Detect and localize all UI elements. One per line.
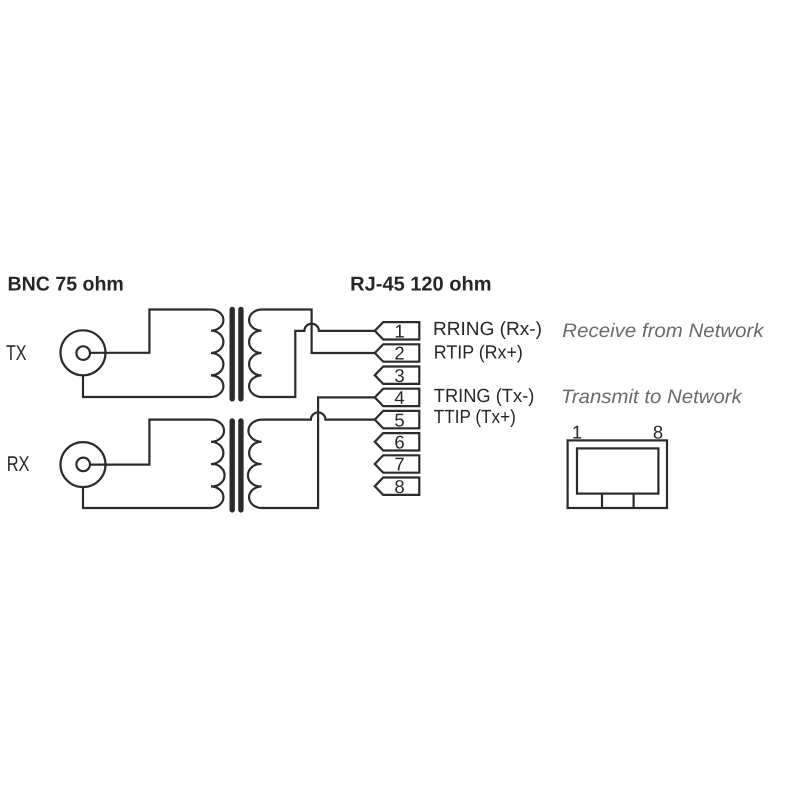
transformer T1 core bar right: [238, 309, 243, 398]
BNC connector J1 (TX) outer shell: [61, 330, 106, 375]
svg-text:4: 4: [394, 387, 404, 408]
wire T1 primary bottom to TX shell: [83, 375, 211, 397]
wire RX center pin to transformer T2 primary top: [90, 420, 210, 465]
transformer T2 core bar right: [238, 421, 243, 510]
pin 4 tag: [375, 389, 420, 406]
transformer T2 secondary winding: [248, 420, 263, 508]
BNC connector J1 (TX) center pin: [76, 346, 90, 360]
RJ-45 pin tags: [375, 322, 420, 495]
transformer T1 primary winding: [210, 309, 223, 397]
svg-text:8: 8: [394, 476, 404, 497]
wire T2 primary bottom to RX shell: [83, 487, 211, 508]
svg-text:TRING (Tx-): TRING (Tx-): [434, 386, 535, 407]
pin 6 tag: [375, 433, 420, 450]
pin 1 tag: [375, 322, 420, 339]
svg-text:1: 1: [394, 321, 404, 342]
pin 2 tag: [375, 344, 420, 361]
RJ-45 latch tab left edge: [601, 494, 603, 508]
svg-text:5: 5: [394, 409, 404, 430]
wire T1 secondary bottom to pin 1 with hop over pin-2 wire: [263, 324, 375, 397]
svg-text:3: 3: [394, 365, 404, 386]
RJ-45 latch tab right edge: [632, 494, 634, 508]
wire TX center pin to transformer T1 primary top: [90, 310, 210, 353]
BNC connector J2 (RX) center pin: [76, 458, 90, 472]
svg-text:Receive from Network: Receive from Network: [562, 320, 765, 342]
svg-text:RRING (Rx-): RRING (Rx-): [433, 319, 542, 340]
svg-text:1: 1: [572, 421, 582, 442]
wire T2 secondary bottom to pin 4: [263, 397, 375, 508]
svg-text:8: 8: [653, 421, 663, 442]
svg-text:RJ-45 120 ohm: RJ-45 120 ohm: [350, 274, 491, 296]
svg-text:RX: RX: [7, 452, 30, 476]
transformer T2 primary winding: [210, 420, 225, 508]
pin 5 tag: [375, 411, 420, 428]
svg-text:RTIP (Rx+): RTIP (Rx+): [434, 343, 523, 364]
transformer T1 secondary winding: [249, 309, 262, 397]
wire T2 secondary top to pin 5 with hop over pin-4 wire: [263, 412, 375, 419]
pin 3 tag: [375, 367, 420, 384]
transformer T1 core bar left: [229, 309, 234, 398]
svg-text:TX: TX: [6, 341, 27, 365]
svg-text:6: 6: [394, 432, 404, 453]
RJ-45 jack outer body: [568, 440, 667, 508]
pin 8 tag: [375, 478, 420, 495]
svg-text:7: 7: [394, 454, 404, 475]
BNC connector J2 (RX) outer shell: [61, 442, 106, 487]
svg-text:Transmit to Network: Transmit to Network: [561, 386, 743, 408]
transformer T2 core bar left: [229, 421, 234, 510]
svg-text:2: 2: [394, 343, 404, 364]
pin 7 tag: [375, 455, 420, 472]
wire T1 secondary top to pin 2: [263, 310, 375, 354]
svg-text:TTIP (Tx+): TTIP (Tx+): [434, 407, 516, 428]
svg-text:BNC 75 ohm: BNC 75 ohm: [8, 273, 124, 295]
RJ-45 jack plug opening: [577, 448, 658, 493]
